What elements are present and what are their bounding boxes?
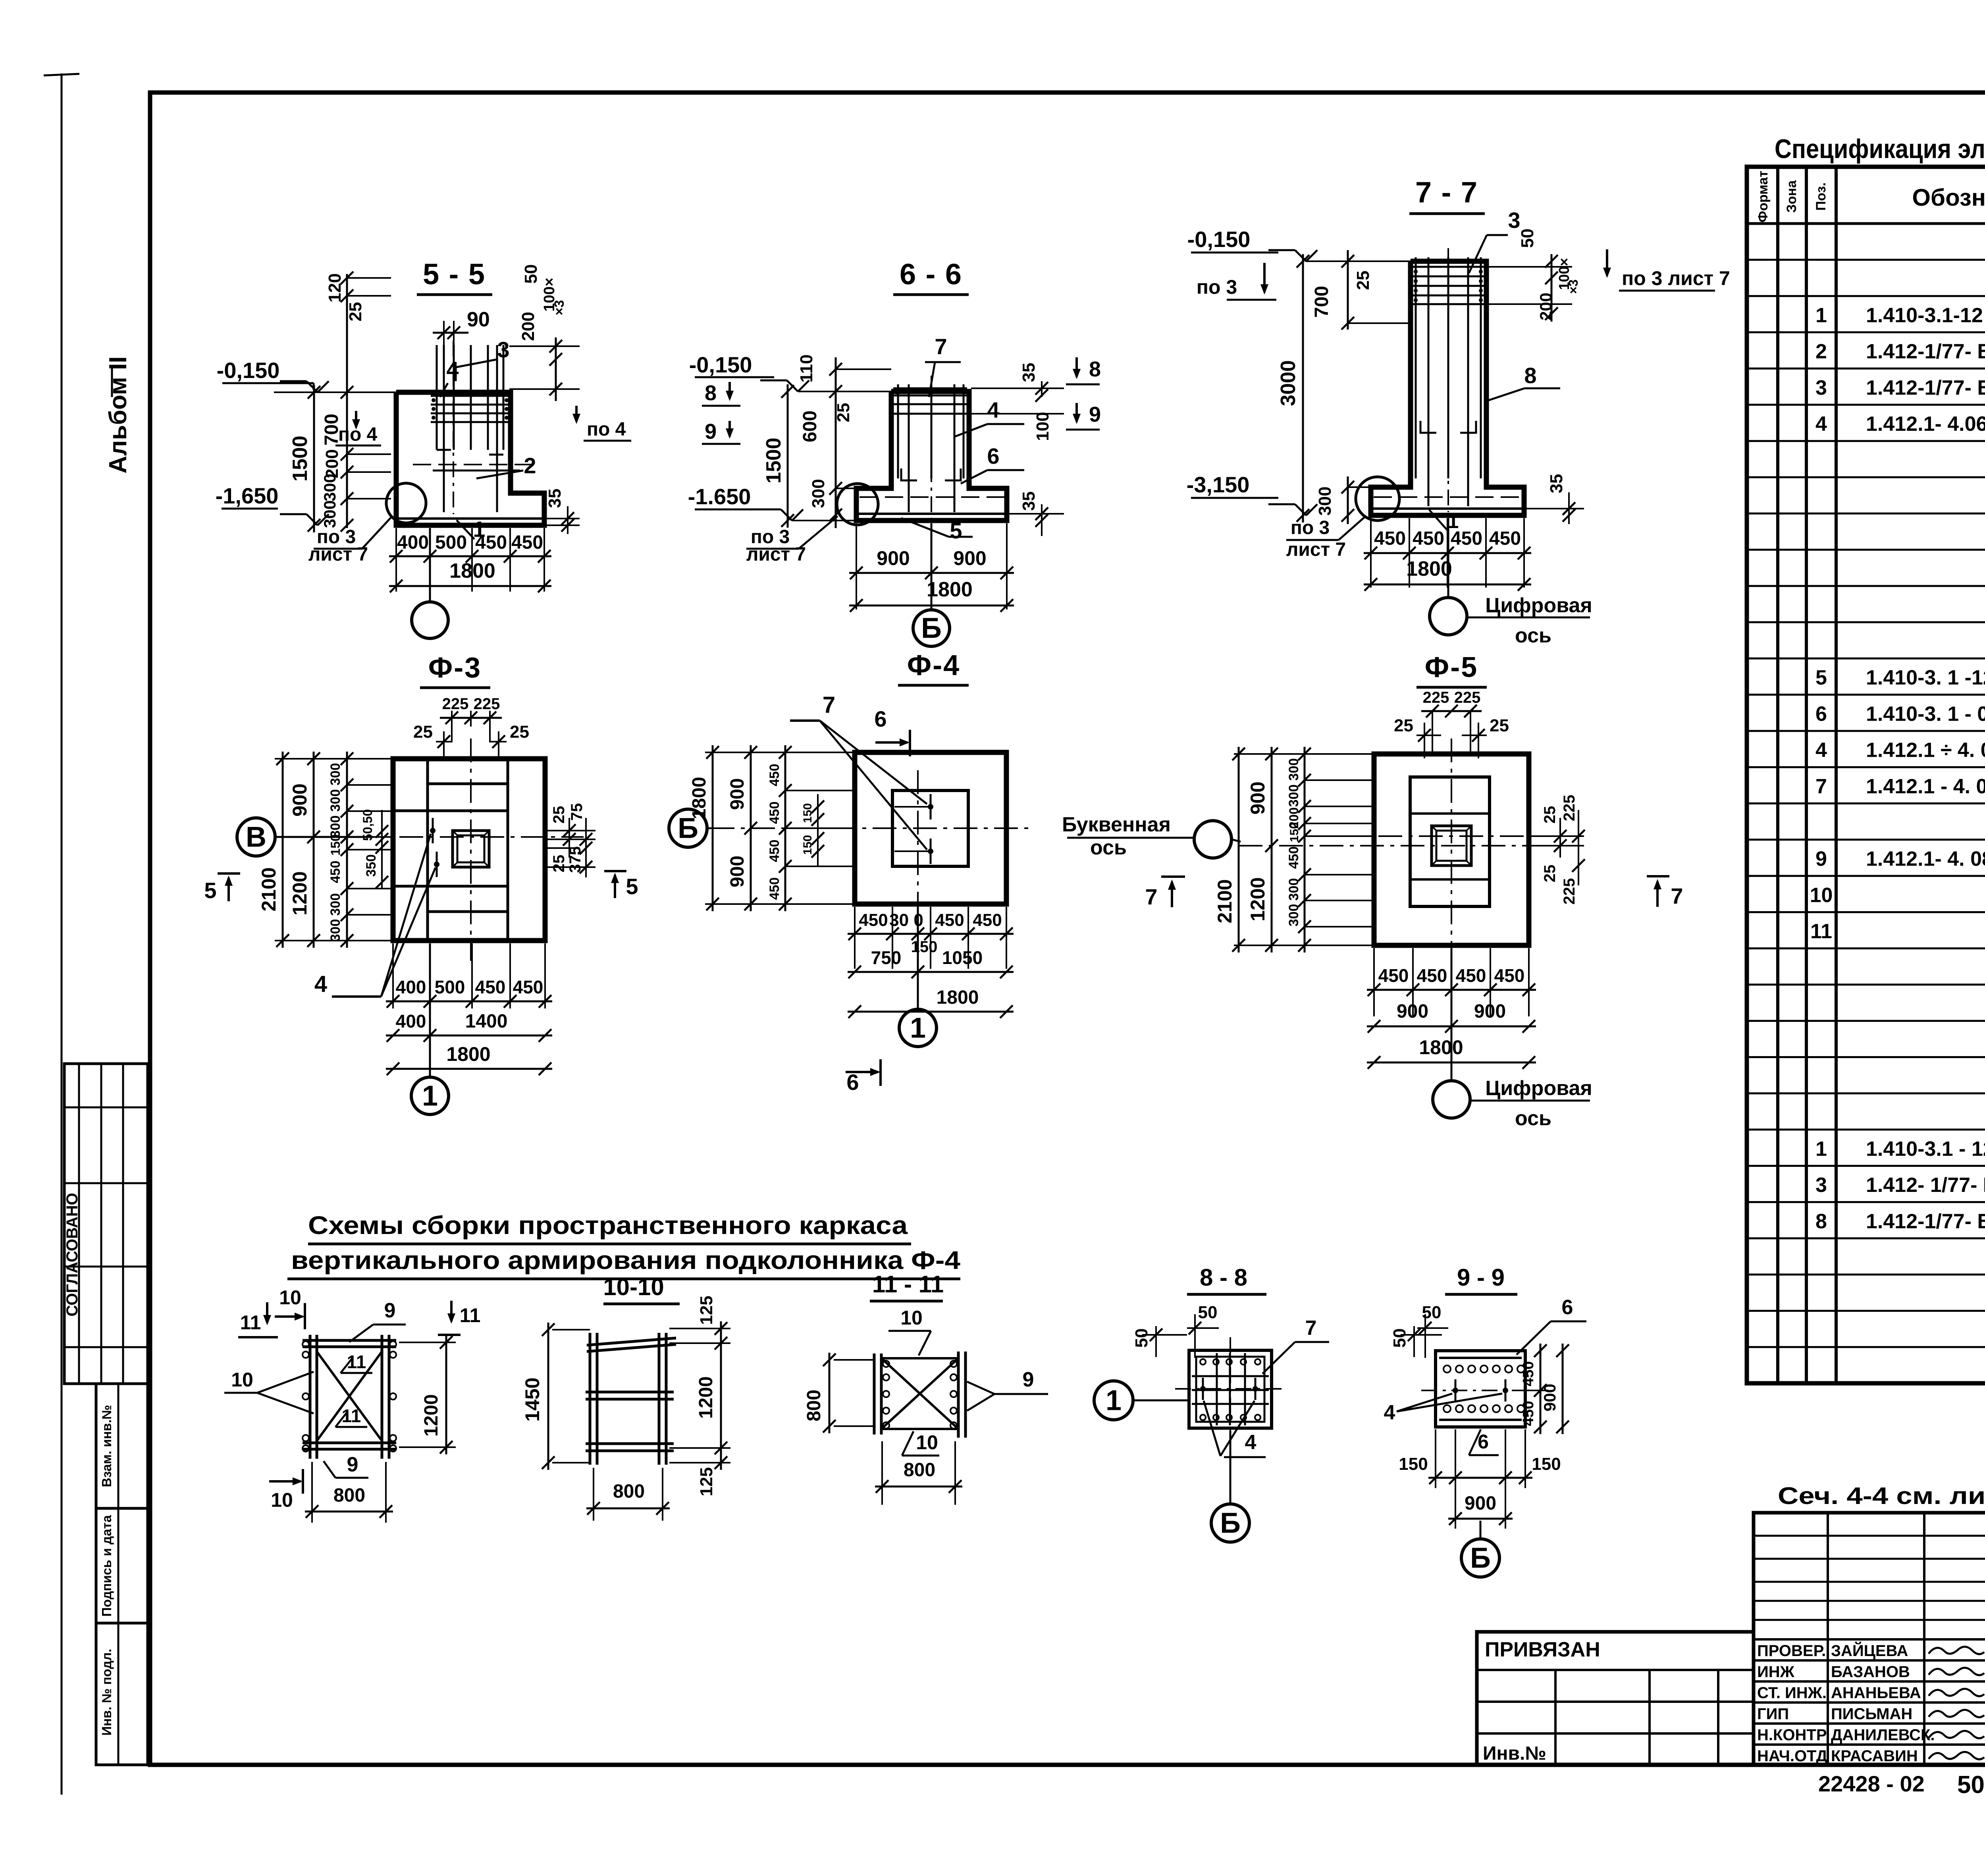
section 5-5 bottom mesh line (pos 1) (399, 517, 543, 520)
svg-text:1.412-1/77- В3.-100: 1.412-1/77- В3.-100 (1866, 340, 1985, 363)
section 5-5 detail circle по 3 лист 7 (386, 483, 426, 523)
svg-text:7: 7 (935, 334, 947, 359)
plan Ф-3 right dims 25/75/375/25 (547, 830, 595, 831)
specification table outer border (1747, 167, 1985, 1383)
section 9-9 rivet circles bottom row (1443, 1405, 1451, 1412)
svg-text:300: 300 (328, 789, 343, 812)
scheme cage: X diagonals (317, 1352, 382, 1441)
svg-text:Инв.№: Инв.№ (1483, 1743, 1546, 1764)
svg-text:350: 350 (364, 854, 379, 877)
plan Ф-3 bottom dims 400/1400 (386, 1035, 552, 1037)
scheme 11-11 dim 800 bottom (881, 1441, 883, 1505)
svg-text:400: 400 (396, 977, 426, 997)
section 8-8 rebar grid (1216, 1353, 1218, 1425)
section 7-7 axis dash-dot (1447, 248, 1449, 512)
scheme 10-10 vertical bars (589, 1333, 592, 1465)
plan Ф-5 left dims 900/1200 (1271, 747, 1273, 952)
svg-text:1450: 1450 (521, 1377, 543, 1421)
svg-text:4: 4 (1815, 739, 1827, 762)
svg-text:1400: 1400 (465, 1011, 508, 1032)
svg-text:25: 25 (346, 302, 365, 322)
scheme 10-10 dims 125/1200/125 right (720, 1321, 722, 1470)
svg-text:50: 50 (1957, 1771, 1985, 1799)
svg-text:25: 25 (510, 722, 529, 742)
section 7-7 dim 3000 vertical (1302, 254, 1304, 523)
section 5-5 axis line and circle (429, 528, 431, 602)
svg-text:10: 10 (900, 1307, 923, 1329)
svg-text:225: 225 (1561, 795, 1578, 821)
section 8-8 axes dash-dot (1230, 1337, 1231, 1445)
svg-text:125: 125 (697, 1467, 716, 1496)
svg-text:25: 25 (550, 806, 568, 824)
svg-text:450: 450 (767, 802, 782, 824)
plan Ф-5 bottom dims 900/900 (1367, 1026, 1536, 1028)
svg-text:300: 300 (1286, 878, 1301, 901)
svg-text:по 3 лист 7: по 3 лист 7 (1622, 267, 1730, 289)
svg-text:300: 300 (328, 919, 343, 942)
svg-text:×3: ×3 (1566, 280, 1580, 294)
svg-text:1800: 1800 (1419, 1036, 1463, 1059)
svg-text:-1.650: -1.650 (688, 484, 751, 509)
svg-text:9: 9 (347, 1453, 358, 1476)
scheme cage: left vertical rails (309, 1335, 312, 1459)
svg-text:50: 50 (1518, 229, 1537, 248)
section 5-5 concrete outline (396, 392, 544, 525)
svg-text:Б: Б (1220, 1507, 1241, 1539)
plan Ф-3 footing outline (393, 759, 545, 941)
plan Ф-5 left dims 2100 (1234, 753, 1374, 755)
scheme 11-11 bottom rail (881, 1428, 958, 1430)
left paper trim line (61, 73, 63, 1795)
svg-text:700: 700 (1311, 286, 1332, 318)
svg-text:6: 6 (1815, 702, 1827, 725)
svg-text:25: 25 (1541, 806, 1559, 824)
svg-text:150: 150 (911, 938, 938, 956)
svg-text:лист 7: лист 7 (1286, 539, 1346, 560)
svg-text:1050: 1050 (942, 947, 983, 968)
svg-text:75: 75 (568, 803, 586, 821)
svg-text:6: 6 (987, 443, 999, 469)
svg-text:9: 9 (705, 420, 717, 443)
svg-text:35: 35 (1019, 363, 1039, 382)
svg-text:11: 11 (460, 1304, 481, 1327)
svg-text:4: 4 (446, 357, 459, 382)
plan Ф-4 left dims 900/900 (750, 745, 752, 911)
svg-text:25: 25 (550, 855, 568, 873)
svg-text:1800: 1800 (927, 578, 973, 601)
section 5-5 stacked dims 120/25/700/200/300/300 (346, 274, 348, 528)
plan Ф-3 bottom dim 1800 (386, 1068, 552, 1070)
svg-text:25: 25 (1541, 865, 1559, 883)
plan Ф-5 left stacked dims 300/300/200/150/450/300/300 (1304, 747, 1306, 952)
section 7-7 mark по 3 лист 7 right (1606, 249, 1608, 276)
section 8-8 anchor marks (1202, 1378, 1204, 1400)
svg-text:Альбом II: Альбом II (104, 356, 132, 473)
plan Ф-4 bottom dims 450/300/150/450/450 (854, 907, 856, 969)
svg-text:300: 300 (809, 479, 828, 508)
svg-text:300: 300 (1286, 758, 1301, 781)
svg-text:35: 35 (1019, 492, 1039, 511)
plan Ф-3 axis circle В (237, 818, 275, 856)
svg-text:500: 500 (435, 532, 467, 553)
section 6-6 axis circle Б (931, 523, 933, 610)
svg-text:450: 450 (767, 764, 782, 787)
svg-text:ДАНИЛЕВСК.: ДАНИЛЕВСК. (1831, 1726, 1935, 1744)
plan Ф-4 sub dims 150/150 (817, 794, 819, 866)
svg-text:1: 1 (1106, 1384, 1122, 1416)
plan Ф-4 left dims 1800 (705, 752, 855, 753)
svg-text:-1,650: -1,650 (216, 483, 279, 508)
svg-text:450: 450 (1413, 528, 1444, 549)
svg-text:150: 150 (801, 835, 814, 855)
svg-text:1.412.1 - 4. 050: 1.412.1 - 4. 050 (1866, 775, 1985, 798)
svg-text:50: 50 (1390, 1328, 1409, 1348)
svg-text:150: 150 (801, 803, 814, 823)
svg-text:Обозначение: Обозначение (1912, 184, 1985, 211)
svg-text:1: 1 (910, 1012, 926, 1044)
svg-text:Цифровая: Цифровая (1485, 1077, 1592, 1100)
svg-text:900: 900 (1540, 1384, 1559, 1411)
section 9-9 bottom dim 900 (1448, 1518, 1513, 1520)
svg-text:225: 225 (1454, 689, 1481, 706)
specification table column lines (1776, 167, 1779, 1383)
section 9-9 bottom dims 150/150 (1435, 1429, 1436, 1488)
svg-text:7: 7 (1671, 883, 1683, 908)
svg-text:1.410-3. 1 - 01: 1.410-3. 1 - 01 (1866, 702, 1985, 725)
label Цифровая ось (1470, 1100, 1590, 1102)
plan Ф-4 bottom dim 1800 (848, 1011, 1014, 1013)
svg-text:500: 500 (435, 977, 465, 997)
plan Ф-5 axes dash-dot (1239, 845, 1572, 846)
plan Ф-5 axis circle left (1194, 821, 1231, 858)
svg-text:4: 4 (1245, 1431, 1257, 1454)
svg-text:3: 3 (1815, 1174, 1827, 1197)
svg-text:8: 8 (1524, 363, 1536, 388)
svg-text:225: 225 (442, 695, 469, 713)
svg-text:900: 900 (1474, 1001, 1506, 1022)
svg-text:9: 9 (384, 1299, 396, 1322)
section 9-9 axis dash-dot (1421, 1390, 1548, 1391)
plan Ф-4 column rectangle (892, 791, 968, 866)
plan Ф-4 bottom dims 750/1050 (848, 971, 1014, 973)
section 6-6 bottom dimension 900/900 (856, 523, 857, 609)
svg-text:8: 8 (1815, 1210, 1827, 1233)
svg-text:25: 25 (1394, 716, 1413, 735)
svg-text:300: 300 (1315, 486, 1335, 515)
plan Ф-3 left dims 900/1200 (313, 752, 315, 948)
plan Ф-5 column rectangle (1410, 777, 1490, 906)
section 5-5 mark по 4 left (355, 411, 357, 427)
svg-text:450: 450 (1374, 528, 1406, 549)
svg-text:1.410-3.1-12: 1.410-3.1-12 (1866, 304, 1983, 327)
svg-text:300: 300 (328, 763, 343, 786)
plan Ф-5 footing outline (1374, 754, 1529, 945)
scheme 11-11 dim 800 left (829, 1353, 831, 1433)
svg-text:800: 800 (613, 1481, 645, 1502)
svg-text:ИНЖ: ИНЖ (1757, 1663, 1795, 1681)
svg-text:1.412-1/77- В.3- 020: 1.412-1/77- В.3- 020 (1866, 376, 1985, 399)
section 5-5 protruding rebar bars (436, 345, 438, 450)
section 7-7 rebar bars (1415, 257, 1417, 478)
plan Ф-3 centre anchor box (453, 831, 489, 867)
svg-text:1200: 1200 (696, 1377, 717, 1419)
svg-text:6 - 6: 6 - 6 (900, 258, 962, 291)
section 5-5 right stacked dims 50/100x3/200 (555, 337, 557, 401)
section 7-7 concrete outline (1371, 261, 1524, 515)
svg-text:450: 450 (1417, 965, 1447, 986)
plan Ф-5 bottom dim 1800 (1367, 1062, 1536, 1064)
svg-text:450: 450 (935, 910, 964, 930)
section 6-6 dim 1500 vertical (787, 384, 789, 528)
svg-text:11: 11 (1810, 920, 1832, 943)
svg-text:25: 25 (1353, 271, 1373, 290)
scheme 10-10 middle rung (586, 1391, 674, 1394)
section 7-7 top mesh bars (pos 3) (1413, 266, 1484, 268)
plan Ф-4 left dims 450x4 (784, 745, 786, 911)
svg-text:1: 1 (1815, 304, 1827, 327)
plan Ф-4 footing outline (855, 752, 1006, 904)
scheme 10-10 top rung (587, 1338, 676, 1345)
svg-text:Схемы сборки пространственно: Схемы сборки пространственного каркаса (308, 1211, 908, 1240)
scheme 10-10 bottom rung (586, 1442, 674, 1445)
svg-text:Цифровая: Цифровая (1485, 594, 1592, 617)
svg-text:2100: 2100 (258, 867, 280, 911)
svg-text:9: 9 (1815, 848, 1827, 871)
svg-text:400: 400 (397, 532, 429, 553)
svg-text:1.412.1- 4. 081: 1.412.1- 4. 081 (1866, 848, 1985, 871)
scheme 11-11 X diagonals (881, 1358, 958, 1429)
svg-text:1800: 1800 (446, 1043, 490, 1065)
svg-text:Подпись и дата: Подпись и дата (99, 1515, 114, 1617)
svg-text:450: 450 (1494, 965, 1525, 986)
scheme 11-11 top rail (881, 1357, 958, 1359)
section 7-7 axis circle and Цифровая ось (1447, 518, 1449, 598)
svg-text:4: 4 (1384, 1401, 1395, 1424)
svg-text:10: 10 (271, 1489, 293, 1511)
svg-text:10: 10 (279, 1286, 301, 1309)
svg-text:225: 225 (1561, 878, 1578, 905)
svg-text:450: 450 (475, 532, 507, 553)
svg-text:2100: 2100 (1214, 879, 1236, 923)
plan Ф-5 right dims 25/225 pairs (1531, 835, 1584, 837)
section 7-7 rebar hooks (1420, 421, 1436, 433)
svg-text:ось: ось (1090, 836, 1127, 859)
scheme cage: rivet circles (303, 1341, 309, 1348)
svg-text:ПРОВЕР.: ПРОВЕР. (1757, 1642, 1826, 1660)
svg-text:1.412.1 ÷ 4. 060: 1.412.1 ÷ 4. 060 (1866, 739, 1985, 762)
svg-text:7 - 7: 7 - 7 (1415, 176, 1478, 209)
svg-text:Инв. № подл.: Инв. № подл. (99, 1649, 114, 1736)
section 9-9 rivet circles top row (1443, 1365, 1451, 1373)
svg-text:1.410-3.1 - 12: 1.410-3.1 - 12 (1866, 1138, 1985, 1161)
svg-text:35: 35 (545, 489, 565, 508)
section 9-9 outline (1436, 1351, 1525, 1427)
section 6-6 rebar hooks (901, 469, 917, 480)
svg-text:5: 5 (1815, 666, 1827, 689)
svg-text:-0,150: -0,150 (1187, 227, 1251, 252)
svg-text:800: 800 (804, 1390, 825, 1421)
section 6-6 rebar bars (897, 384, 899, 478)
plan Ф-4 anchor marks (930, 794, 932, 819)
svg-text:10: 10 (916, 1431, 938, 1454)
section 6-6 top mesh bars (pos 7) (893, 395, 967, 397)
svg-text:1.412.1- 4.060: 1.412.1- 4.060 (1866, 413, 1985, 436)
svg-text:4: 4 (314, 971, 327, 997)
svg-text:2: 2 (1815, 340, 1827, 363)
svg-text:-3,150: -3,150 (1187, 472, 1250, 497)
svg-text:10-10: 10-10 (603, 1274, 664, 1300)
svg-text:лист 7: лист 7 (746, 544, 806, 565)
svg-text:Б: Б (1470, 1542, 1491, 1574)
section 6-6 concrete outline (856, 391, 1007, 521)
svg-text:ГИП: ГИП (1757, 1705, 1789, 1723)
svg-text:150: 150 (1532, 1454, 1561, 1474)
svg-text:200: 200 (518, 312, 538, 341)
svg-text:5 - 5: 5 - 5 (423, 258, 486, 291)
svg-text:3: 3 (1815, 376, 1827, 399)
svg-text:450: 450 (1451, 528, 1482, 549)
svg-text:300: 300 (320, 474, 339, 501)
svg-text:450: 450 (513, 977, 543, 997)
svg-text:1200: 1200 (421, 1394, 442, 1437)
svg-text:450: 450 (1456, 965, 1486, 986)
section 6-6 section marks 8 and 9 right (1075, 357, 1078, 377)
section 7-7 footing dashed line (1374, 496, 1521, 498)
svg-text:900: 900 (1247, 781, 1269, 814)
svg-text:1800: 1800 (449, 559, 495, 582)
svg-text:4: 4 (1815, 413, 1827, 436)
svg-text:450: 450 (475, 977, 506, 997)
section 6-6 footing dashed line (860, 496, 1004, 498)
section 5-5 top mesh horizontal bars (pos 3) (431, 395, 509, 397)
section 7-7 stacked dims 700/25 (1347, 250, 1349, 330)
svg-text:Сеч. 4-4 см. лист 7.: Сеч. 4-4 см. лист 7. (1778, 1483, 1985, 1509)
plan Ф-3 sub dims 50,50/350 (381, 810, 383, 889)
svg-text:900: 900 (727, 778, 748, 810)
svg-text:11 - 11: 11 - 11 (872, 1271, 944, 1298)
svg-text:150: 150 (1399, 1454, 1428, 1474)
svg-text:25: 25 (413, 722, 433, 742)
svg-text:1: 1 (422, 1080, 438, 1112)
section 6-6 stacked dims 110/600/25/300 (835, 357, 837, 528)
scheme cage: right vertical rails (381, 1335, 384, 1459)
section 8-8 square outline (1189, 1350, 1272, 1428)
section 7-7 bottom dimension 450x4 (1370, 518, 1372, 588)
svg-text:вертикального армирования п: вертикального армирования подколонника Ф… (291, 1246, 960, 1274)
svg-text:Буквенная: Буквенная (1062, 813, 1171, 836)
svg-text:3: 3 (497, 337, 509, 362)
left margin stamp Взам. инв. № (96, 1384, 148, 1508)
svg-text:1800: 1800 (937, 987, 979, 1008)
scheme 10-10 dim 800 bottom (593, 1468, 594, 1521)
svg-text:50: 50 (1132, 1328, 1151, 1348)
svg-text:ось: ось (1515, 624, 1551, 647)
section 6-6 detail circle по 3 лист 7 (837, 484, 878, 525)
svg-text:7: 7 (1815, 775, 1827, 798)
svg-text:1.412-1/77- В.3 -130: 1.412-1/77- В.3 -130 (1866, 1210, 1985, 1233)
svg-text:800: 800 (904, 1460, 935, 1481)
svg-text:125: 125 (697, 1296, 716, 1325)
plan Ф-3 top dims 225 225 (451, 711, 453, 742)
svg-text:2: 2 (524, 453, 536, 478)
svg-text:1500: 1500 (289, 436, 312, 482)
section 7-7 detail circle по 3 лист 7 (1356, 477, 1399, 521)
specification table header row line (1747, 222, 1985, 225)
section 7-7 right stacked dims 50/100x3/200 (1551, 254, 1553, 322)
svg-text:5: 5 (626, 874, 638, 899)
svg-text:900: 900 (289, 783, 311, 816)
svg-text:450: 450 (767, 877, 782, 900)
scheme cage: dim 1200 right (445, 1335, 447, 1454)
svg-text:450: 450 (511, 532, 543, 553)
title block: signatures column grid (1754, 1513, 1985, 1765)
svg-text:Взам. инв.№: Взам. инв.№ (99, 1405, 114, 1487)
svg-text:900: 900 (1397, 1001, 1428, 1022)
section 7-7 stacked dim 300 left (1347, 476, 1349, 524)
svg-text:СТ. ИНЖ.: СТ. ИНЖ. (1757, 1684, 1827, 1702)
section 8-8 rebar dots (1200, 1359, 1206, 1365)
svg-text:ПИСЬМАН: ПИСЬМАН (1831, 1705, 1912, 1723)
svg-text:300: 300 (320, 500, 339, 528)
section 7-7 bottom mesh line (pos 1) (1373, 507, 1522, 510)
svg-text:НАЧ.ОТД: НАЧ.ОТД (1757, 1747, 1827, 1765)
scheme 10-10 dim 1450 left (547, 1323, 549, 1470)
svg-text:ЗАЙЦЕВА: ЗАЙЦЕВА (1831, 1641, 1908, 1660)
svg-text:Формат: Формат (1756, 171, 1771, 222)
svg-text:90: 90 (467, 308, 490, 331)
svg-text:Ф-4: Ф-4 (907, 650, 960, 681)
plan Ф-3 axis circle 1 (429, 943, 431, 1077)
svg-text:5: 5 (204, 878, 216, 903)
svg-text:300: 300 (1286, 785, 1301, 807)
svg-text:450: 450 (1520, 1361, 1537, 1386)
left margin stamp Подпись и дата (96, 1508, 148, 1623)
plan Ф-3 anchor marks pos 4 (432, 818, 434, 843)
svg-text:7: 7 (1145, 884, 1157, 909)
svg-text:25: 25 (834, 403, 853, 422)
svg-text:1200: 1200 (289, 871, 311, 915)
svg-text:1: 1 (1815, 1138, 1827, 1161)
svg-text:9 - 9: 9 - 9 (1457, 1264, 1505, 1291)
plan Ф-3 bottom dims 400/500/450/450 (392, 943, 394, 1008)
svg-text:450: 450 (328, 861, 343, 883)
plan Ф-3 left dims: grid line and 2100 (275, 758, 393, 760)
svg-text:КРАСАВИН: КРАСАВИН (1831, 1747, 1918, 1765)
svg-text:10: 10 (1810, 884, 1833, 907)
svg-text:Ф-3: Ф-3 (428, 652, 482, 684)
svg-text:900: 900 (1465, 1493, 1496, 1514)
svg-text:600: 600 (800, 411, 821, 442)
scheme 11-11 rivets (883, 1361, 889, 1367)
title block: left attachment ПРИВЯЗАН (1477, 1632, 1754, 1765)
svg-text:450: 450 (859, 910, 888, 930)
section 5-5 dim 1500 vertical (313, 385, 315, 532)
scheme cage: top horizontal rail (303, 1339, 396, 1342)
plan Ф-4 axis circle Б (669, 809, 707, 847)
svg-text:Зона: Зона (1784, 180, 1799, 213)
section 5-5 mid mesh (pos 2) (413, 464, 536, 465)
section 8-8 axis circle 1 (1094, 1381, 1133, 1420)
section 5-5 dim 90 at top (443, 321, 445, 345)
svg-text:×3: ×3 (552, 300, 567, 316)
svg-text:Б: Б (921, 612, 942, 644)
section 5-5 bottom dimension 1800 (389, 585, 551, 587)
svg-text:9: 9 (1089, 403, 1101, 426)
section 9-9 right dims 450/450 900 (1540, 1344, 1542, 1434)
svg-text:3000: 3000 (1277, 360, 1300, 406)
svg-text:120: 120 (325, 273, 345, 302)
svg-text:35: 35 (1547, 474, 1566, 494)
